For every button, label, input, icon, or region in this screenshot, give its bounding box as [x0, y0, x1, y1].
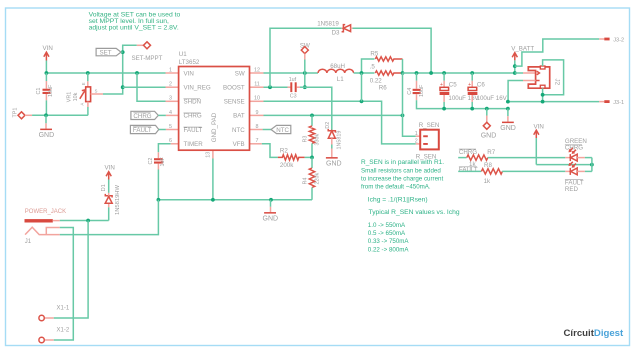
svg-text:C1: C1 — [36, 88, 42, 95]
svg-text:3: 3 — [169, 96, 172, 102]
capacitor C4 — [407, 73, 425, 100]
connector J1 POWER_JACK — [25, 209, 67, 245]
node R5R6 right — [401, 71, 405, 75]
wire VIN_REG — [123, 86, 166, 88]
svg-text:200k: 200k — [280, 162, 294, 169]
wire SENSE branch riser — [361, 73, 363, 101]
svg-text:SENSE: SENSE — [224, 99, 245, 106]
svg-text:R_SEN is in parallel with R1.: R_SEN is in parallel with R1. — [361, 159, 444, 166]
test point TP1 — [13, 108, 33, 119]
svg-text:0.22 -> 800mA: 0.22 -> 800mA — [368, 246, 410, 253]
node SENSE-branch — [360, 99, 364, 103]
svg-text:R4: R4 — [303, 178, 309, 185]
wire SW to D2 branch — [305, 87, 332, 130]
wire D3 to output node — [353, 28, 432, 73]
wire output row right — [403, 72, 515, 74]
node out-C5 — [442, 71, 446, 75]
ground GND (bar right) — [500, 109, 516, 132]
node led-join — [590, 163, 594, 167]
svg-text:RED: RED — [565, 186, 579, 193]
pin SET-MPPT — [132, 42, 163, 62]
ground GND (below C1) — [39, 115, 55, 139]
svg-text:J3-2: J3-2 — [613, 38, 624, 44]
wire BAT row — [264, 114, 403, 116]
flag NTC — [263, 125, 291, 134]
svg-text:9: 9 — [256, 110, 259, 116]
svg-text:S: S — [95, 88, 98, 93]
svg-text:C6: C6 — [477, 82, 485, 89]
svg-text:R5: R5 — [370, 51, 378, 58]
svg-text:0.5 -> 650mA: 0.5 -> 650mA — [368, 230, 406, 237]
capacitor C1 — [36, 73, 54, 115]
svg-text:5: 5 — [169, 124, 172, 130]
node VIN-VR1 — [86, 71, 90, 75]
resistor R3 — [303, 115, 321, 157]
wire jack power row — [60, 220, 109, 222]
node vbatt-j3 — [513, 64, 517, 68]
wire VR1 bottom riser — [87, 107, 89, 115]
node C2-rail — [157, 198, 161, 202]
node shield loop — [541, 93, 545, 97]
svg-text:CHRG: CHRG — [133, 113, 151, 120]
node BAT-RSEN — [401, 114, 405, 118]
node R2-R3-R4 — [310, 156, 314, 160]
svg-text:VIN: VIN — [105, 165, 115, 172]
potentiometer VR1 — [67, 73, 104, 107]
svg-text:D1: D1 — [101, 184, 107, 191]
capacitor C5 — [440, 73, 480, 109]
svg-text:U1: U1 — [179, 51, 187, 58]
node wiper-SET — [121, 50, 125, 54]
node SW-C3 — [303, 85, 307, 89]
svg-text:BOOST: BOOST — [223, 84, 245, 91]
node out-C6 — [470, 71, 474, 75]
wire VIN rail — [46, 72, 165, 74]
wire C4 to gnd rail — [417, 100, 508, 108]
svg-text:R_SEN: R_SEN — [419, 122, 440, 129]
node railend — [506, 107, 510, 111]
svg-text:100uF 16V: 100uF 16V — [477, 95, 508, 102]
flag FAULT — [130, 125, 166, 134]
svg-text:D3: D3 — [332, 30, 340, 37]
svg-text:SHDN: SHDN — [184, 99, 202, 106]
op-amp U1 LT3652 — [166, 51, 264, 159]
svg-text:from the default ~450mA.: from the default ~450mA. — [361, 184, 431, 191]
inductor L1 — [318, 63, 354, 83]
wire GND_PAD pin13 — [212, 159, 214, 200]
node C1-GND — [44, 113, 48, 117]
svg-text:VIN: VIN — [534, 123, 544, 130]
svg-text:VIN: VIN — [43, 45, 53, 52]
svg-text:68uH: 68uH — [330, 63, 345, 70]
svg-text:1N5819: 1N5819 — [317, 21, 339, 28]
svg-text:R2: R2 — [280, 148, 288, 155]
resistor R8 — [481, 162, 565, 185]
pin J3-2 — [599, 38, 624, 44]
svg-text:8: 8 — [256, 124, 259, 130]
node VIN-SHDN — [135, 71, 139, 75]
supply VIN (led section) — [534, 123, 544, 164]
svg-text:FAULT: FAULT — [133, 127, 152, 134]
svg-text:10uF: 10uF — [419, 84, 425, 97]
node out-D3 — [429, 71, 433, 75]
node jack-X1 — [86, 219, 90, 223]
flag SET — [96, 48, 123, 56]
wire SW row — [264, 72, 319, 74]
svg-text:C2: C2 — [148, 158, 154, 165]
supply VIN (input) — [43, 45, 53, 61]
wire J2 pin2 to gnd — [508, 81, 523, 102]
ground GND (rail) — [263, 200, 279, 223]
wire led cathodes join — [591, 158, 593, 172]
wire BOOST — [264, 86, 288, 88]
svg-text:VR1: VR1 — [67, 92, 73, 103]
svg-text:.5: .5 — [370, 63, 376, 70]
svg-text:R7: R7 — [487, 149, 495, 156]
svg-text:GND_PAD: GND_PAD — [211, 112, 218, 142]
svg-text:10k: 10k — [73, 92, 79, 101]
svg-text:+: + — [468, 82, 471, 88]
pin X1-2 — [39, 328, 70, 343]
wire VIN arrow to rail — [45, 61, 47, 74]
svg-text:TIMER: TIMER — [184, 141, 204, 148]
svg-text:X1-1: X1-1 — [57, 306, 70, 312]
svg-text:1N5819: 1N5819 — [337, 131, 343, 150]
wire TIMER to C2 — [158, 144, 170, 153]
wire VIN to led join — [536, 164, 592, 166]
svg-text:GND: GND — [326, 160, 342, 167]
svg-text:VIN: VIN — [184, 70, 194, 77]
wire VFB — [262, 144, 278, 158]
wire X1-1 riser — [54, 221, 88, 319]
svg-text:D2: D2 — [325, 122, 331, 129]
svg-text:11: 11 — [254, 82, 260, 88]
node j31-gnd — [506, 100, 510, 104]
svg-text:Ichg = .1/(R1||Rsen): Ichg = .1/(R1||Rsen) — [368, 196, 428, 203]
svg-text:10uF: 10uF — [48, 84, 54, 97]
svg-text:NTC: NTC — [276, 127, 289, 134]
node out-C4 — [415, 71, 419, 75]
svg-text:GND: GND — [39, 132, 55, 139]
svg-text:X1-2: X1-2 — [57, 328, 70, 334]
svg-text:E: E — [81, 82, 86, 85]
svg-text:220k: 220k — [315, 173, 321, 185]
connector J2 — [523, 66, 561, 88]
wire jack sleeve to gnd — [60, 200, 159, 235]
svg-text:CHRG: CHRG — [184, 113, 202, 120]
pin SW testpoint — [300, 43, 310, 87]
svg-text:330k: 330k — [315, 134, 321, 146]
node j31-shield — [541, 100, 545, 104]
node L1-R5R6 left — [360, 71, 364, 75]
svg-text:R8: R8 — [484, 162, 492, 169]
node vbatt-row — [513, 71, 517, 75]
svg-text:0.33 -> 750mA: 0.33 -> 750mA — [368, 238, 410, 245]
svg-text:10: 10 — [254, 96, 260, 102]
svg-text:C5: C5 — [449, 82, 457, 89]
node VIN-C1 — [45, 71, 49, 75]
wire to J3-2 staircase — [515, 39, 599, 66]
wire shield drop — [542, 95, 544, 102]
svg-text:1.0 -> 550mA: 1.0 -> 550mA — [368, 222, 406, 229]
resistor R7 — [467, 149, 566, 168]
svg-text:LT3652: LT3652 — [179, 59, 200, 66]
svg-text:1k: 1k — [484, 178, 491, 185]
svg-text:Typical R_SEN values vs. Ichg: Typical R_SEN values vs. Ichg — [369, 209, 460, 216]
wire SHDN — [137, 73, 166, 101]
note text R_SEN — [361, 159, 460, 253]
capacitor C2 — [148, 152, 166, 200]
wire R5R6 right to R_SEN pin1 — [403, 73, 416, 136]
svg-text:4: 4 — [169, 110, 172, 116]
svg-text:1uf: 1uf — [289, 77, 297, 83]
logo CircuitDigest — [564, 328, 625, 339]
LED green CHRG — [565, 138, 592, 161]
resistor R2 — [278, 148, 312, 169]
svg-text:2: 2 — [415, 139, 418, 145]
node SW-diamond — [303, 71, 307, 75]
supply VIN (jack) — [105, 165, 115, 180]
capacitor C3 — [288, 77, 305, 100]
diode D3 1N5819 — [317, 21, 352, 37]
node wiper-VINREG — [121, 85, 125, 89]
svg-text:FAULT: FAULT — [459, 167, 478, 174]
svg-text:12: 12 — [254, 67, 260, 73]
wire GND rail — [158, 199, 312, 201]
svg-text:POWER_JACK: POWER_JACK — [25, 209, 66, 215]
svg-text:1N5819HW: 1N5819HW — [115, 185, 121, 215]
svg-text:C4: C4 — [407, 88, 413, 95]
svg-text:SET-MPPT: SET-MPPT — [132, 55, 163, 62]
wire J3-1 row — [508, 101, 599, 103]
note text top-left — [89, 12, 181, 32]
svg-text:GND: GND — [481, 133, 497, 140]
svg-text:A: A — [80, 103, 85, 106]
svg-text:adjust pot until V_SET = 2.8V.: adjust pot until V_SET = 2.8V. — [89, 24, 179, 31]
capacitor C6 — [468, 73, 508, 109]
flag CHRG — [131, 111, 166, 120]
node C6-gnd — [470, 107, 474, 111]
node pin13-rail — [211, 198, 215, 202]
svg-text:SET: SET — [100, 49, 112, 56]
diode D2 1N5819 — [325, 122, 343, 157]
resistor R_SEN — [415, 122, 440, 160]
svg-text:SW: SW — [235, 70, 245, 77]
node BOOST-D3riser — [268, 85, 272, 89]
wire jack tip to X1-2 — [54, 228, 74, 341]
label CHRG net — [458, 149, 477, 158]
svg-text:C3: C3 — [290, 94, 297, 100]
svg-text:L1: L1 — [337, 76, 344, 83]
svg-text:1: 1 — [169, 67, 172, 73]
svg-text:13: 13 — [205, 152, 211, 158]
wire L1 to sense resistors — [354, 72, 375, 74]
svg-text:7: 7 — [256, 138, 259, 144]
pin J3-1 — [599, 100, 624, 106]
wire TP1 row — [32, 114, 88, 116]
pin X1-1 — [39, 306, 70, 321]
svg-text:GND: GND — [263, 215, 279, 222]
svg-text:Small resistors can be added: Small resistors can be added — [361, 167, 441, 174]
svg-text:2: 2 — [169, 82, 172, 88]
ground pin GND (diamond) — [481, 109, 497, 140]
wire J2 pin1 — [515, 72, 536, 74]
node BAT-R3 — [310, 114, 314, 118]
svg-text:1uF: 1uF — [160, 157, 166, 167]
supply V_BATT — [511, 46, 534, 74]
svg-text:GND: GND — [500, 125, 516, 132]
svg-text:BAT: BAT — [233, 113, 245, 120]
wire J2 shield loop — [543, 60, 564, 95]
svg-text:to increase the charge current: to increase the charge current — [361, 175, 443, 182]
wire BOOST to D3 — [270, 28, 342, 87]
wire SENSE — [264, 101, 416, 144]
node gnd-rail — [269, 198, 273, 202]
svg-text:J3-1: J3-1 — [613, 100, 624, 106]
svg-text:+: + — [440, 82, 443, 88]
svg-text:J2: J2 — [554, 79, 561, 86]
svg-text:100uF 16V: 100uF 16V — [448, 95, 479, 102]
svg-text:CírcuitDigest: CírcuitDigest — [564, 328, 625, 339]
svg-text:R6: R6 — [379, 85, 387, 92]
resistor R5 — [362, 51, 403, 73]
svg-text:1: 1 — [415, 131, 418, 137]
diode D1 1N5819HW — [101, 180, 121, 221]
resistor R6 — [370, 71, 403, 92]
ground GND (D2) — [326, 157, 342, 167]
resistor R4 — [303, 157, 321, 199]
node C5-gnd — [442, 107, 446, 111]
svg-text:NTC: NTC — [232, 127, 245, 134]
svg-text:6: 6 — [169, 138, 172, 144]
svg-text:TP1: TP1 — [13, 108, 19, 118]
svg-text:VFB: VFB — [233, 141, 245, 148]
wire VR1 wiper to SET net — [103, 45, 137, 94]
LED red FAULT — [565, 162, 592, 193]
svg-text:R3: R3 — [303, 136, 309, 143]
svg-text:0.22: 0.22 — [370, 77, 383, 84]
svg-text:FAULT: FAULT — [184, 127, 203, 134]
node gndpin-rail — [485, 107, 489, 111]
svg-text:J1: J1 — [25, 239, 32, 245]
label FAULT net — [458, 167, 481, 174]
svg-text:VIN_REG: VIN_REG — [184, 84, 211, 91]
